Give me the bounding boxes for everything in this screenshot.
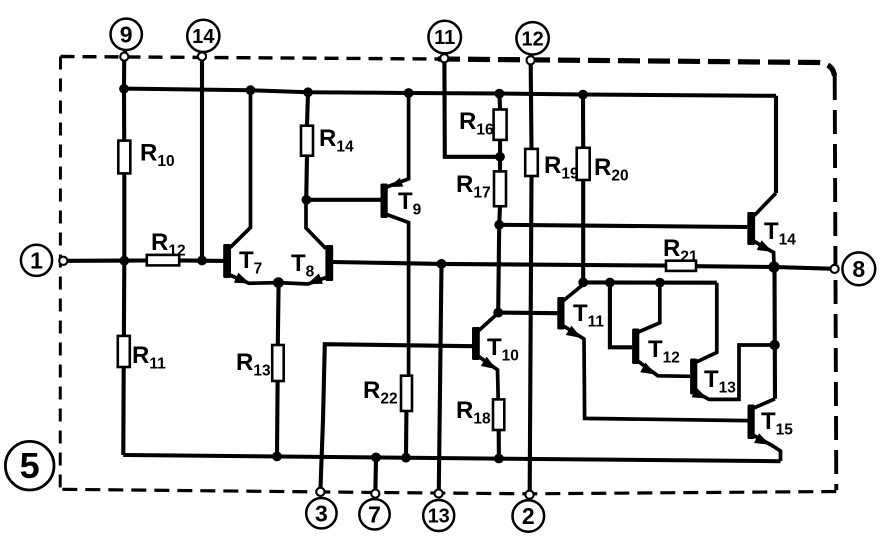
dashed IC boundary box: right segment [835, 76, 837, 490]
svg-text:1: 1 [30, 248, 43, 274]
pin 12 border terminal [527, 56, 535, 64]
pin 12 lead [529, 55, 534, 57]
junction R16/rail [495, 89, 505, 99]
resistor R20 body [577, 148, 590, 180]
svg-text:12: 12 [521, 28, 543, 50]
junction T7/T8 common emitters [273, 277, 284, 288]
wire pin 3 riser to T10 base [321, 344, 473, 488]
wire node B to T12 base [610, 283, 632, 348]
dashed IC boundary box: top-right heavy segment [438, 59, 835, 76]
junction T7 collector/rail [246, 85, 256, 95]
schematic number 5 badge [5, 441, 54, 490]
junction R16/R17/pin 11 [495, 152, 505, 162]
transistor T12 [632, 283, 690, 377]
junction node A (R20/T11 collector) [578, 278, 588, 288]
wire R17 to T14 base junction [497, 206, 502, 225]
wire T10 node to T11 base [498, 311, 557, 316]
dashed IC boundary box: top-left segment [61, 57, 439, 60]
wire rail to R20 [581, 95, 585, 148]
pin 11 border terminal [440, 54, 448, 62]
resistor R22 body [401, 376, 412, 411]
wire R20 to node A [581, 180, 585, 282]
pin 2 border terminal [525, 491, 533, 499]
pin 8 terminal circle [842, 252, 875, 285]
wire T8 base to output line [332, 262, 441, 264]
svg-text:9: 9 [120, 22, 133, 48]
svg-text:8: 8 [852, 256, 865, 282]
pin 7 border terminal [371, 490, 379, 498]
dashed IC boundary box: left segment [59, 57, 62, 490]
junction R10-R11 column/input line [119, 256, 129, 266]
wire output line middle [442, 264, 667, 266]
pin 14 border terminal [198, 52, 206, 60]
wire R17 junction to T14 base [499, 225, 747, 227]
wire node to T9 base [306, 198, 380, 202]
junction pin14 line/input line [197, 256, 207, 266]
wire R16 to pin11 junction [498, 140, 502, 157]
junction T13 emitter/T15 collector [769, 340, 779, 350]
svg-text:14: 14 [192, 26, 215, 48]
wire R19 down to pin 2 [530, 176, 532, 491]
resistor R11 body [118, 336, 130, 367]
wire R21 to T14 emitter node [696, 264, 774, 269]
transistor T14 [747, 193, 776, 267]
resistor R16 body [494, 110, 507, 140]
svg-text:13: 13 [428, 506, 450, 528]
pin 13 border terminal [435, 489, 443, 497]
junction R14/T8 collector/T9 base [302, 195, 312, 205]
junction pin 7/ground [371, 453, 381, 463]
pin 9 border terminal [120, 53, 128, 61]
svg-text:2: 2 [522, 503, 535, 529]
transistor T11 [557, 285, 747, 421]
junction R20/rail [578, 90, 588, 100]
wire rail corner down to T14 collector [774, 96, 778, 193]
wire R22 to ground rail [404, 411, 408, 457]
junction T9 emitter/rail [404, 88, 414, 98]
pin 3 terminal circle [306, 498, 336, 528]
resistor R19 body [525, 149, 538, 176]
wire junction down to T10 collector node [498, 225, 499, 313]
resistor R13 body [272, 345, 284, 381]
pin 7 terminal circle [359, 499, 389, 529]
wire R10 to input line [122, 173, 126, 260]
wire pin 14 to input line [200, 60, 204, 260]
resistor R17 body [494, 171, 506, 206]
junction T14 emitter/output [768, 261, 779, 272]
wire R14 to T8 collector node [304, 156, 309, 200]
pin 12 terminal circle [516, 22, 548, 54]
resistor R21 body [666, 261, 696, 271]
wire node A to T13 collector corner [583, 280, 717, 284]
resistor R12 body [147, 255, 179, 266]
pin 1 border terminal [59, 257, 67, 265]
junction T10 collector/T11 base [493, 308, 503, 318]
transistor T10 [472, 313, 498, 399]
pin 8 border terminal [831, 265, 839, 273]
transistor T8 [278, 200, 333, 284]
svg-text:7: 7 [368, 502, 381, 528]
wire output line down to pin 13 [439, 264, 442, 490]
transistor T9 (PNP) [381, 93, 409, 376]
svg-text:11: 11 [434, 27, 455, 49]
wire rail to R10 [122, 89, 126, 141]
V+ top rail [124, 89, 776, 96]
resistor R14 body [301, 126, 313, 156]
wire rail to R16 [497, 94, 502, 110]
pin 2 terminal circle [513, 500, 545, 532]
wire R12 to T7 base [179, 258, 225, 263]
pin 1 terminal circle [21, 245, 52, 276]
junction R17/T14 base line [494, 220, 504, 230]
resistor R18 body [493, 399, 504, 430]
pin 9 terminal circle [111, 19, 142, 50]
junction R18/ground [494, 454, 504, 464]
svg-text:3: 3 [315, 500, 328, 526]
wire output to pin 8 [774, 267, 830, 269]
pin 11 terminal circle [428, 21, 461, 54]
wire R13 to ground rail [275, 381, 280, 456]
resistor R10 body [118, 141, 130, 174]
junction R13/ground [272, 452, 282, 462]
wire output node down to T15 collector [772, 267, 777, 399]
junction R14/rail [303, 87, 313, 97]
wire R11 to ground rail [121, 367, 125, 455]
svg-text:5: 5 [20, 445, 40, 486]
junction node C (T12 collector) [655, 278, 665, 288]
dashed IC boundary box: bottom segment [60, 489, 836, 494]
wire pin 9 to V+ rail [122, 61, 126, 89]
pin 3 border terminal [316, 488, 324, 496]
junction pin 13 line/output line [437, 259, 447, 269]
transistor T7 [223, 90, 278, 283]
junction R22/ground [401, 453, 411, 463]
wire rail to R14 [307, 92, 308, 125]
wire common emitter node to R13 [276, 283, 281, 345]
pin 14 terminal circle [187, 20, 219, 52]
wire pin 7 to ground rail [373, 457, 378, 489]
pin 11 lead [442, 53, 446, 54]
pin 13 terminal circle [423, 500, 454, 531]
wire R18 to ground rail [497, 430, 501, 457]
transistor T13 [690, 283, 774, 400]
wire pin 11 down and right to R16/R17 junction [444, 62, 500, 157]
ground bottom rail [123, 455, 780, 461]
wire junction to R17 [498, 157, 502, 172]
junction node B (T12 base) [605, 278, 615, 288]
junction pin9/rail [119, 84, 129, 94]
wire pin 12 down to R19 [529, 64, 534, 149]
pin 9 lead [125, 50, 126, 53]
pin 14 lead [200, 50, 205, 55]
wire pin 1 to R12 [67, 258, 146, 262]
wire input line to R11 [122, 261, 127, 336]
transistor T15 [748, 399, 781, 461]
